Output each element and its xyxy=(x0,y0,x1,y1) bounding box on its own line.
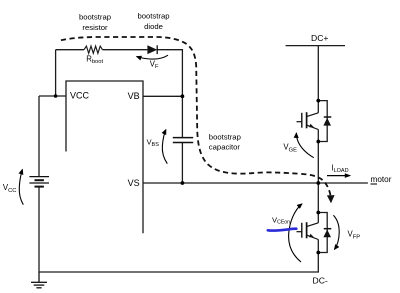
node upper emitter xyxy=(316,140,320,144)
arrow ILOAD xyxy=(327,175,346,177)
node lower collector xyxy=(316,211,320,215)
svg-text:VCC: VCC xyxy=(3,183,17,194)
wire upper-IGBT emitter vertical to VS xyxy=(317,130,319,184)
wire DC+ stem xyxy=(317,46,319,101)
diode D2 (upper freewheel) branch xyxy=(318,101,327,142)
wire top horizontal to resistor xyxy=(56,49,84,51)
arrow VFP (arc right of lower diode) xyxy=(333,215,339,249)
wire battery bottom lead xyxy=(38,187,40,272)
wire top-left vertical xyxy=(55,50,57,96)
resistor Rboot zigzag xyxy=(84,46,103,53)
capacitor Cboot plates xyxy=(173,138,193,143)
svg-text:bootstrap: bootstrap xyxy=(79,13,111,22)
diode D3 (lower freewheel) branch xyxy=(318,213,327,253)
svg-text:VBS: VBS xyxy=(147,138,160,149)
wire bottom DC- rail xyxy=(39,253,318,273)
svg-text:bootstrap: bootstrap xyxy=(137,12,169,21)
wire upper-IGBT collector vertical xyxy=(317,101,319,113)
svg-text:motor: motor xyxy=(371,175,392,184)
arrow VCEon (big arc around lower IGBT) xyxy=(289,204,302,262)
DC+ rail xyxy=(286,45,345,47)
wire VB pin to capacitor node xyxy=(143,95,182,97)
svg-text:VCC: VCC xyxy=(70,91,90,101)
svg-text:VF: VF xyxy=(150,59,159,70)
arrow VBS (arc) xyxy=(162,130,167,164)
svg-text:VS: VS xyxy=(128,178,140,188)
battery VCC plates xyxy=(29,177,49,187)
wire battery top lead xyxy=(38,96,40,177)
arrow VGE (arc) xyxy=(296,133,313,158)
node upper collector xyxy=(316,99,320,103)
IC box (partial outline) xyxy=(66,81,143,233)
arrow VCC (arc left of battery) xyxy=(19,170,23,205)
node VB xyxy=(181,94,185,98)
arrowhead of dashed path xyxy=(327,195,335,203)
svg-text:bootstrap: bootstrap xyxy=(209,133,241,142)
svg-text:diode: diode xyxy=(144,22,163,31)
wire VS node to lower IGBT xyxy=(317,183,319,223)
svg-text:VGE: VGE xyxy=(283,143,297,154)
transistor Q1 (upper IGBT) xyxy=(297,112,319,129)
wire VS output line to motor xyxy=(143,182,368,184)
arrow VF (arc under diode) xyxy=(137,55,168,59)
node VCC tap xyxy=(54,94,58,98)
diode D1 (bootstrap diode) xyxy=(147,45,157,54)
wire capacitor top lead xyxy=(181,96,183,137)
wire capacitor bottom lead xyxy=(181,143,183,184)
transistor Q2 (lower IGBT) xyxy=(297,222,319,239)
svg-text:resistor: resistor xyxy=(82,23,108,32)
svg-text:VCEon: VCEon xyxy=(272,215,290,225)
svg-text:capacitor: capacitor xyxy=(209,142,241,151)
wire diode to corner, down to VB node xyxy=(157,50,182,97)
node junction dots xyxy=(54,94,320,254)
node cap/VS xyxy=(181,181,185,185)
node lower emitter xyxy=(316,251,320,255)
node phase/VS xyxy=(316,181,320,185)
ground xyxy=(31,272,47,288)
wire lower-IGBT emitter vertical xyxy=(317,240,319,253)
blue pointer line for VCEon xyxy=(268,229,297,231)
svg-text:VFP: VFP xyxy=(348,230,361,241)
svg-text:DC+: DC+ xyxy=(311,33,328,43)
wire resistor to diode xyxy=(103,49,148,51)
wire VCC feed from battery to IC xyxy=(39,95,66,97)
svg-text:VB: VB xyxy=(128,91,140,101)
svg-text:ILOAD: ILOAD xyxy=(331,164,348,175)
svg-text:Rboot: Rboot xyxy=(86,55,103,66)
dashed bootstrap charge path xyxy=(61,37,330,195)
svg-text:DC-: DC- xyxy=(313,276,328,286)
